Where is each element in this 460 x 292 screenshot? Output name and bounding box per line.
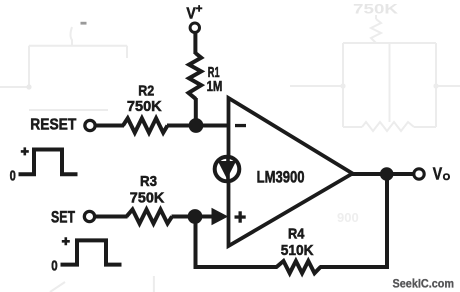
current source arrow	[218, 161, 236, 179]
wire R1 to node	[194, 98, 198, 127]
svg-text:+: +	[196, 3, 203, 15]
svg-text:900: 900	[337, 210, 359, 225]
svg-text:LM3900: LM3900	[257, 168, 305, 187]
svg-text:R3: R3	[140, 174, 157, 190]
svg-text:750K: 750K	[127, 98, 162, 115]
waveform reset pulse	[19, 150, 78, 175]
wire feedback bottom right segment	[320, 265, 389, 269]
resistor R3	[127, 210, 173, 224]
terminal SET	[84, 211, 94, 221]
watermark ghost resistor horizontal	[362, 122, 414, 131]
watermark ghost line bottom-left	[50, 276, 154, 292]
junction dot reset node	[189, 118, 204, 133]
waveform reset plus	[21, 147, 29, 155]
wire V+ to R1	[193, 33, 197, 54]
terminal V+	[190, 23, 199, 32]
svg-text:1M: 1M	[207, 79, 223, 95]
svg-text:SET: SET	[51, 209, 75, 227]
op-amp U1 LM3900 triangle	[229, 98, 353, 246]
watermark ghost resistor vertical	[371, 15, 381, 43]
waveform set pulse	[61, 240, 122, 264]
plus input arrowhead	[212, 208, 229, 225]
junction dot output node	[380, 167, 394, 181]
wire op-amp output	[352, 172, 413, 176]
wire R2 to op-amp minus input	[167, 124, 229, 128]
watermark ghost rect top-left	[0, 27, 127, 110]
resistor R1	[189, 53, 202, 99]
watermark ghost rect top-right	[290, 43, 460, 127]
svg-text:O: O	[443, 172, 451, 183]
terminal Vo	[414, 169, 424, 179]
svg-text:510K: 510K	[281, 242, 314, 259]
waveform set plus	[62, 237, 70, 245]
current source wire through	[226, 155, 230, 182]
svg-text:RESET: RESET	[30, 116, 76, 133]
wire SET terminal to R3	[96, 215, 128, 219]
wire feedback left vertical	[194, 217, 198, 269]
svg-text:0: 0	[51, 257, 57, 274]
svg-text:R4: R4	[288, 226, 304, 242]
current source circle	[215, 157, 240, 182]
watermark ghost dash	[81, 22, 87, 25]
svg-text:0: 0	[10, 167, 16, 184]
minus input symbol	[235, 124, 246, 127]
svg-text:750K: 750K	[353, 1, 398, 17]
svg-text:V: V	[433, 163, 443, 183]
wire feedback right vertical	[385, 174, 389, 269]
watermark ghost junction dots	[26, 84, 31, 89]
svg-text:750K: 750K	[130, 189, 165, 206]
wire R3 to plus-input arrow	[172, 215, 215, 219]
wire RESET terminal to R2	[97, 124, 125, 128]
wire feedback bottom left segment	[194, 265, 278, 269]
svg-text:SeekIC.com: SeekIC.com	[393, 276, 455, 290]
junction dot set node	[188, 209, 203, 224]
resistor R4	[277, 261, 321, 273]
resistor R2	[123, 118, 168, 132]
plus input symbol	[235, 215, 246, 218]
terminal RESET	[85, 120, 95, 130]
